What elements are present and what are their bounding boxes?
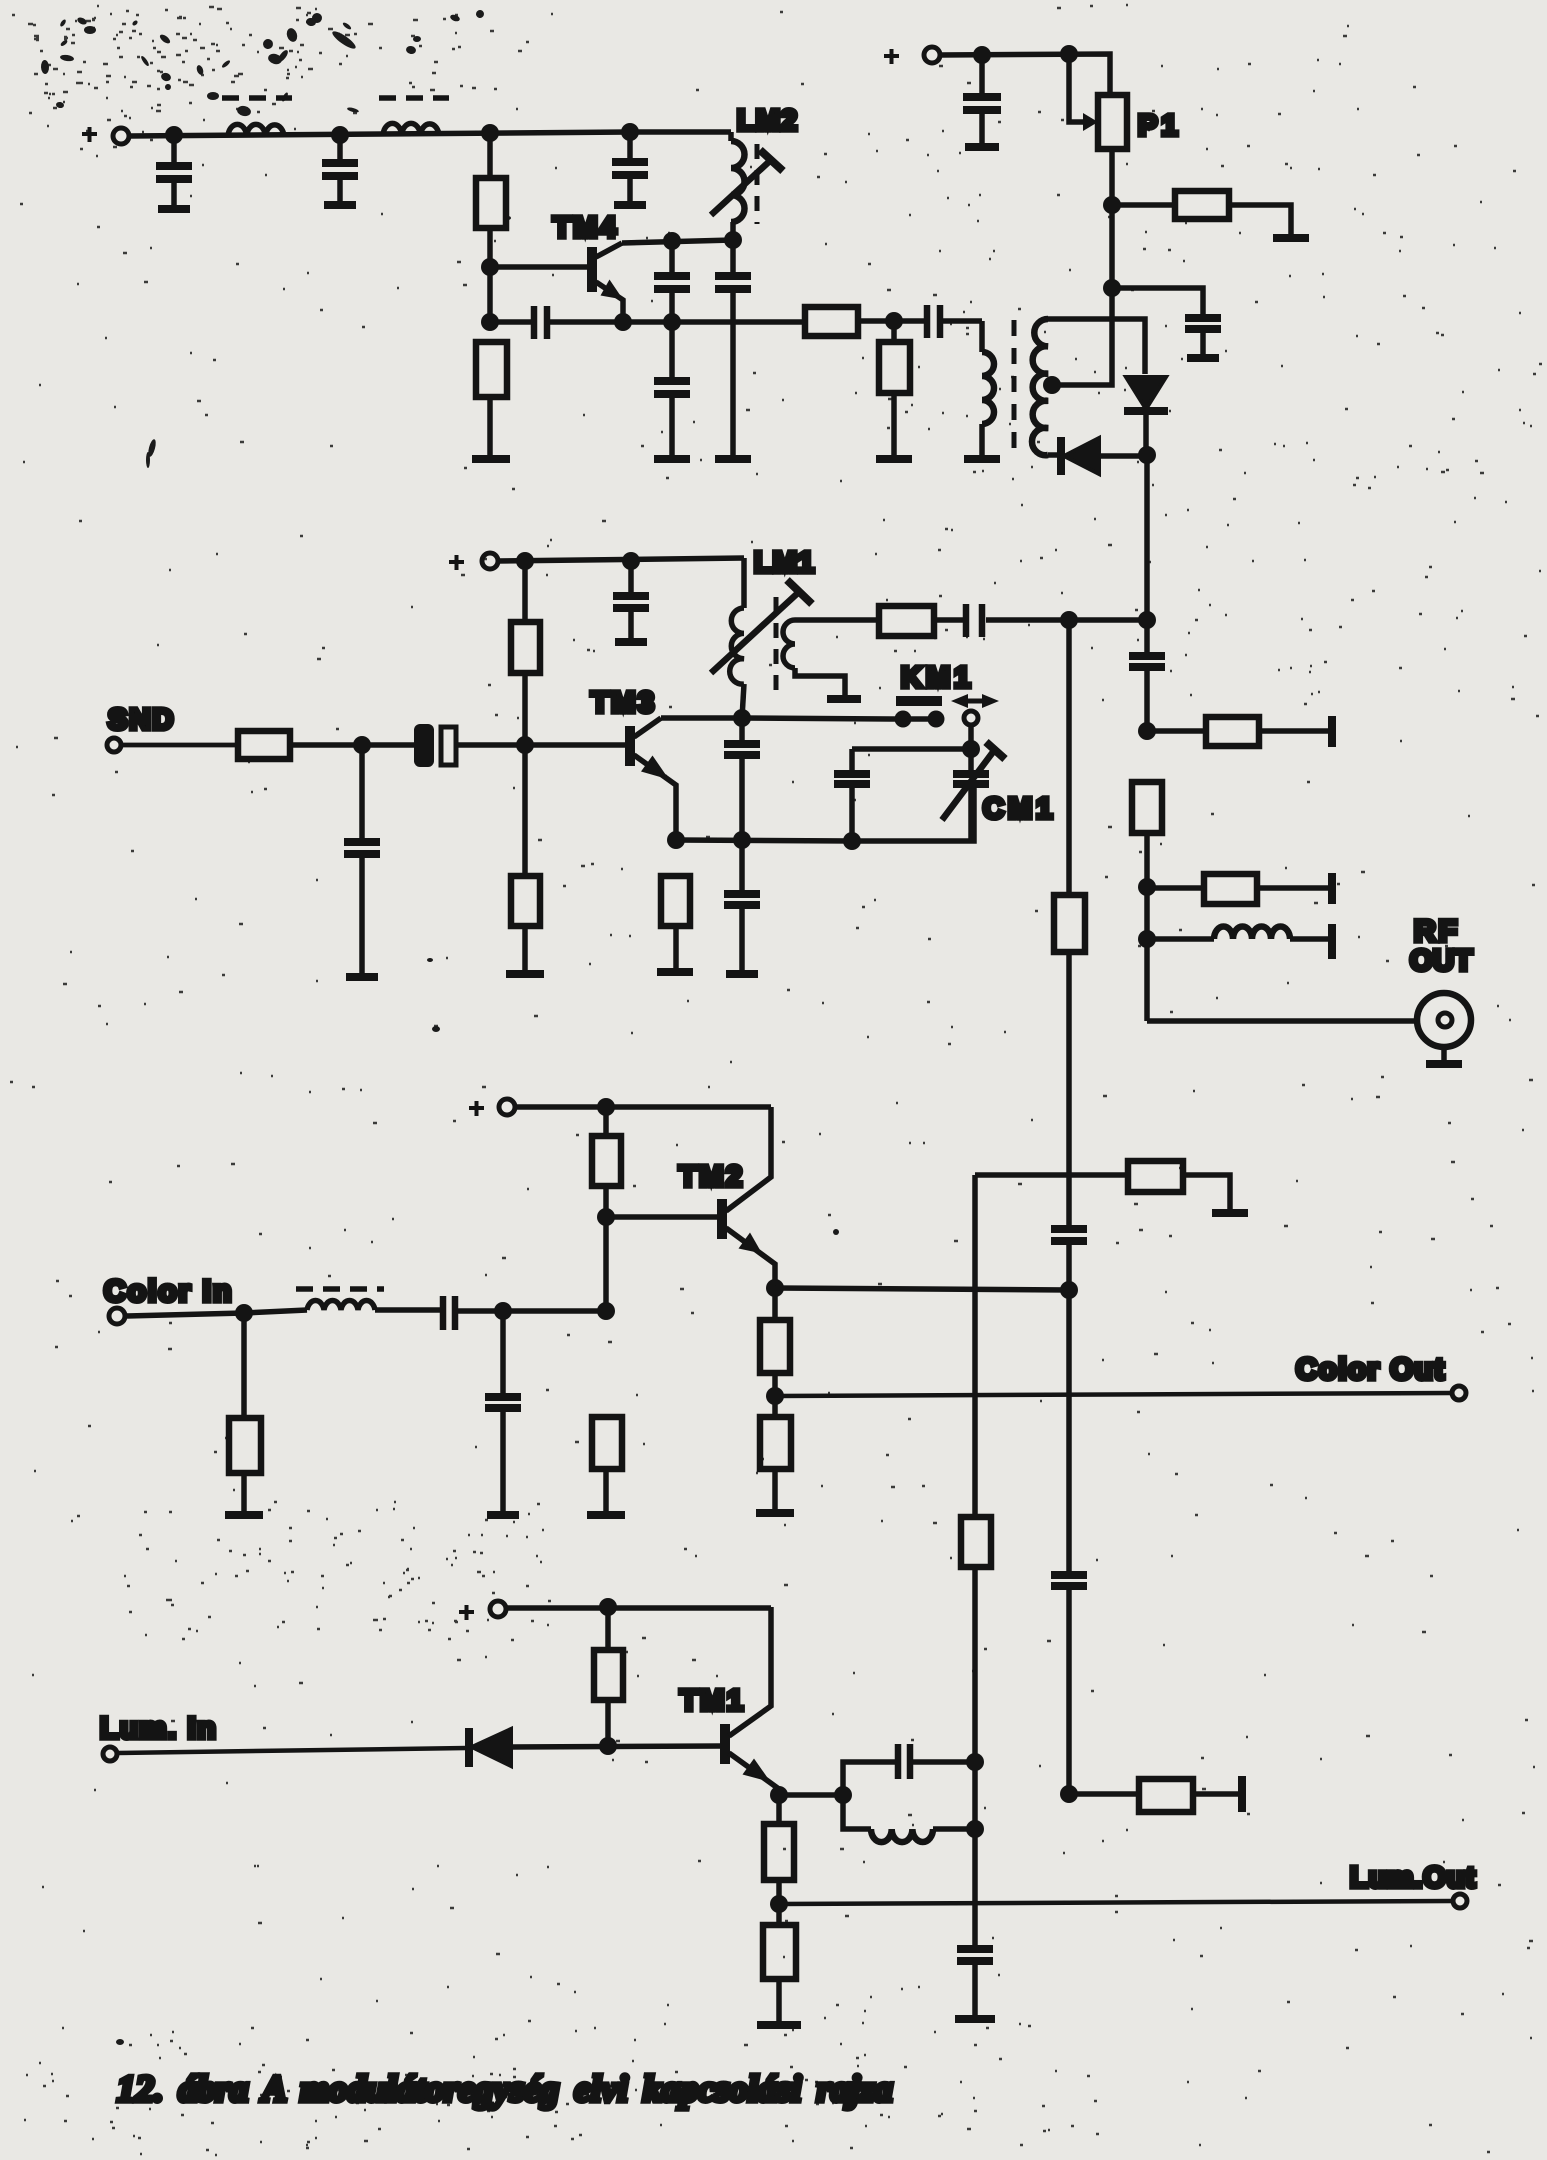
input terminal SND (107, 738, 121, 752)
svg-text:CM1: CM1 (983, 793, 1056, 825)
svg-text:TM4: TM4 (553, 212, 619, 244)
svg-text:TM2: TM2 (679, 1161, 745, 1193)
svg-text:12. ábra A modulátoregység elv: 12. ábra A modulátoregység elvi kapcsolá… (117, 2069, 893, 2110)
resistor R (TM2 emitter upper) (760, 1288, 790, 1417)
terminal bar (choke end) (1328, 924, 1336, 959)
capacitor C (rail1 bypass b) (322, 135, 358, 205)
wire emitter line y322 mid (550, 319, 805, 325)
inductor LM1 (variable, sound carrier coil) (730, 558, 744, 718)
svg-text:KM1: KM1 (901, 662, 974, 694)
ground (P1 load) (1273, 234, 1309, 242)
node junction AO (LC bottom) (966, 1820, 984, 1838)
supply terminal + (TM1 rail) (459, 1605, 474, 1620)
wire secondary top to diode column (1048, 319, 1145, 374)
ground (TM1 emitter) (757, 2021, 801, 2029)
dashed core line above choke b (379, 95, 449, 101)
capacitor C (sound mixer series) (966, 604, 982, 637)
resistor R (buffer drive series) (805, 307, 858, 336)
svg-text:SND: SND (108, 704, 175, 736)
resistor R (TM3 base lower) (511, 745, 540, 972)
supply terminal post (TM1 rail) (490, 1601, 506, 1617)
capacitor C (series, TM4 emitter left) (534, 306, 547, 339)
capacitor C (rail1 bypass d) (612, 132, 648, 205)
wire TM4 base (490, 264, 588, 270)
wire tap to P1 column (1052, 288, 1112, 385)
wire Lum In (117, 1748, 467, 1753)
input terminal Color In (109, 1308, 125, 1324)
transistor TM3 (630, 718, 742, 840)
input terminal Lum In (103, 1747, 117, 1761)
node junction O (1103, 279, 1121, 297)
svg-text:LM1: LM1 (754, 547, 815, 579)
potentiometer P1 (1069, 54, 1127, 149)
diode D (Lum In clamp, pointing left) (469, 1728, 723, 1767)
switch KM1 bar (896, 696, 942, 706)
node junction U (top of video rail) (1060, 611, 1078, 629)
ground (x733) (715, 455, 751, 463)
wire video rail mid (1066, 1290, 1072, 1573)
inductor L (rail1 choke b) (383, 123, 439, 135)
capacitor C (x672 upper feedback) (654, 241, 690, 322)
svg-text:Color In: Color In (104, 1275, 233, 1308)
resistor R (TM3 emitter) (661, 876, 690, 970)
capacitor C (TM3 rail bypass) (613, 561, 649, 642)
resistor R (TM4 base upper) (476, 178, 506, 228)
capacitor C (Color In series) (375, 1296, 606, 1330)
node junction E (TM4 base) (481, 258, 499, 276)
wire RF rail upper (1144, 455, 1150, 654)
transistor TM4 (592, 240, 733, 322)
wire TM2 base (606, 1214, 718, 1220)
wire TM1 supply rail (506, 1605, 771, 1611)
inductor L (output choke) (1147, 926, 1329, 939)
svg-text:RF: RF (1414, 915, 1460, 948)
wire rail1-c down (487, 133, 493, 178)
wire TM3 base (525, 742, 626, 748)
ground (below I) (472, 455, 510, 463)
capacitor C (LM1 tank lower, to ground) (724, 840, 760, 974)
node junction rail1-c (481, 124, 499, 142)
wire to RF connector (1147, 1018, 1416, 1024)
wire TM3 supply rail (498, 558, 744, 561)
node junction rail1-a (165, 126, 183, 144)
wire to node AD (290, 742, 415, 748)
wire KM1 to CM1 (968, 725, 974, 749)
resistor R (RF rail series) (1132, 782, 1162, 1021)
capacitor C (video rail series 1) (1051, 1229, 1087, 1290)
capacitor C (below AD, to ground) (344, 745, 380, 977)
inductor L (LM1 coupling coil) (783, 620, 845, 697)
resistor R (TM4 base lower) (476, 342, 507, 457)
ground (below L) (876, 455, 912, 463)
svg-text:LM2: LM2 (737, 105, 798, 137)
capacitor C (x733 feedback) (715, 240, 751, 457)
dashed core line LM2 (755, 144, 760, 224)
wire KM1 feed (742, 718, 936, 719)
node junction AS (TM1 emitter) (770, 1786, 788, 1804)
node junction H (TM4 emitter) (614, 313, 632, 331)
capacitor C (below AL, to ground) (485, 1311, 521, 1515)
node junction AI (TM2 emitter) (766, 1279, 784, 1297)
inductor L (peaking LC bottom) (843, 1795, 975, 1842)
inductor L (Color In peaking) (307, 1301, 375, 1310)
capacitor C (P1 rail bypass) (963, 55, 1001, 147)
ground (TM2 base lower) (587, 1511, 625, 1519)
node junction AL (494, 1302, 512, 1320)
dashed core line LM1 (774, 597, 779, 690)
transistor TM1 (725, 1607, 779, 1795)
svg-text:P1: P1 (1138, 110, 1181, 142)
supply terminal post (TM3 rail) (482, 553, 498, 569)
node junction P (1103, 196, 1121, 214)
wire secondary bottom to diode 2 (1048, 452, 1058, 458)
supply terminal + (P1 rail) (884, 49, 899, 64)
node junction AU (lum out tap) (770, 1895, 788, 1913)
node junction G (collector line / x672) (663, 232, 681, 250)
resistor R (TM1 emitter lower) (763, 1925, 796, 2023)
transformer primary coil (982, 321, 994, 457)
node junction AQ (599, 1598, 617, 1616)
svg-text:Lum. In: Lum. In (100, 1712, 217, 1745)
wire bias rail top corner (975, 1172, 1128, 1178)
wire y322 after resistor (858, 318, 894, 324)
svg-text:TM3: TM3 (591, 687, 657, 719)
node junction Q (RF rail / mixer feed) (1138, 611, 1156, 629)
resistor R (attenuator mid) (1147, 874, 1329, 904)
wire bias rail x975 (972, 1175, 978, 1517)
ground (TM3 base lower) (506, 970, 544, 978)
ground (TM2 emitter) (756, 1509, 794, 1517)
resistor R (TM2 base lower) (592, 1417, 622, 1513)
wire Color In (125, 1310, 307, 1316)
dashed core line (transformer) (1012, 320, 1017, 450)
resistor R (TM2 base upper) (592, 1107, 621, 1312)
capacitor C (LM1 tank upper) (724, 718, 760, 840)
node junction AB (LM1 bottom) (733, 709, 751, 727)
node junction rail1-b (331, 126, 349, 144)
capacitor C (electrolytic, SND coupling) (414, 724, 525, 767)
node junction AE (emitter bus / padder) (843, 832, 861, 850)
ground (TM3 emitter) (657, 968, 693, 976)
node junction rail1-d (621, 123, 639, 141)
node junction X (1138, 930, 1156, 948)
arrow through LM2 (711, 150, 783, 215)
node junction S (arrow tap) (1060, 45, 1078, 63)
capacitor CM1 (trimmer) (953, 749, 989, 841)
svg-text:TM1: TM1 (680, 1685, 746, 1717)
wire resistor to node E (487, 228, 493, 322)
inductor LM2 (variable, oscillator coil) (731, 132, 745, 240)
resistor R (video rail terminator) (1069, 1779, 1240, 1812)
node junction M (diode output) (1138, 446, 1156, 464)
svg-text:OUT: OUT (1410, 945, 1473, 977)
node junction Y (516, 552, 534, 570)
node junction AH (TM2 base) (597, 1208, 615, 1226)
wire video rail x1069 upper (1066, 620, 1072, 895)
wire TM2 supply rail (515, 1104, 771, 1110)
capacitor C (series in RF rail) (1129, 656, 1165, 731)
node junction AC (TM3 emitter) (667, 831, 685, 849)
resistor R (bias bleed) (1128, 1161, 1230, 1211)
wire supply rail 1 (129, 132, 731, 136)
node junction L (885, 312, 903, 330)
node junction AM (597, 1302, 615, 1320)
resistor R (TM2 emitter lower) (760, 1417, 791, 1511)
resistor R (below L) (879, 321, 910, 457)
wire mixer line y620 (795, 617, 1147, 623)
resistor R (RF attenuator top) (1147, 717, 1329, 746)
resistor R (TM1 emitter upper) (764, 1795, 794, 1925)
capacitor C (bias rail bypass) (957, 1949, 993, 2017)
node junction R (cap tap) (973, 46, 991, 64)
resistor R (video rail series) (1054, 895, 1085, 1227)
diode D (from secondary bottom, pointing left) (1061, 437, 1147, 475)
supply terminal post (top-left) (113, 128, 129, 144)
node junction AC2 (733, 831, 751, 849)
node junction J (x672 on emitter line) (663, 313, 681, 331)
wire P1 bottom (1109, 149, 1115, 288)
transistor TM2 (722, 1107, 775, 1288)
node junction Z (622, 552, 640, 570)
svg-text:Lum.Out: Lum.Out (1350, 1862, 1476, 1894)
wire SND input (121, 743, 238, 748)
supply terminal post (TM2 rail) (499, 1099, 515, 1115)
resistor R (P1 wiper load) (1112, 191, 1291, 236)
dashed core line above choke a (222, 95, 292, 101)
ground (transformer primary) (964, 455, 1000, 463)
capacitor C (video rail series 2) (1051, 1575, 1087, 1794)
supply terminal + (top-left) (82, 127, 97, 142)
ground (bias rail) (955, 2015, 995, 2023)
wire TM2 emitter to video rail (775, 1288, 1069, 1290)
resistor R (bias rail series) (961, 1517, 991, 1947)
switch KM1 contacts (895, 711, 979, 728)
node junction AR (TM1 base) (599, 1737, 617, 1755)
node junction V (1138, 722, 1156, 740)
terminal bar (video rail) (1238, 1776, 1246, 1812)
terminal bar (attenuator top) (1328, 716, 1336, 747)
RF OUT coaxial connector (1417, 993, 1471, 1062)
resistor R (Color In shunt) (229, 1313, 261, 1513)
wire Lum Out (779, 1901, 1453, 1904)
node junction AA (TM3 base) (516, 736, 534, 754)
node junction AP (1060, 1785, 1078, 1803)
node junction F (LM2 bottom) (724, 231, 742, 249)
switch KM1 arrow (951, 694, 999, 708)
resistor R (TM1 base pullup) (594, 1607, 623, 1746)
supply terminal post (P1 rail) (924, 47, 940, 63)
node junction AK (235, 1304, 253, 1322)
arrow through CM1 (942, 742, 1005, 820)
node junction AT (834, 1786, 852, 1804)
terminal bar (attenuator mid) (1328, 873, 1336, 904)
supply terminal + (TM3 rail) (449, 555, 464, 570)
ground (x672) (654, 455, 690, 463)
capacitor C (x672 lower, to ground) (654, 322, 690, 457)
capacitor C (series to transformer) (894, 305, 982, 338)
capacitor C (tap bypass) (1112, 288, 1221, 358)
inductor L (rail1 choke a) (228, 124, 284, 136)
node junction (video rail / TM2 emitter) (1060, 1281, 1078, 1299)
wire emitter bus y840 (676, 787, 974, 841)
resistor R (TM3 base upper) (511, 561, 540, 745)
wire AF left (852, 746, 971, 752)
arrow through LM1 (711, 580, 812, 673)
dashed core line (peaking coil) (296, 1286, 384, 1292)
diode D (to RF rail, pointing down) (1124, 377, 1168, 455)
node junction N (secondary tap) (1043, 376, 1061, 394)
output terminal Lum Out (1453, 1894, 1467, 1908)
wire emitter to LC (779, 1792, 843, 1798)
capacitor C (peaking LC top) (843, 1744, 975, 1795)
node junction I (below E) (481, 313, 499, 331)
node junction AD (353, 736, 371, 754)
ground (RF connector) (1426, 1060, 1462, 1068)
wire Color Out (775, 1393, 1452, 1396)
supply terminal + (TM2 rail) (469, 1101, 484, 1116)
resistor R (sound mixer series) (879, 606, 934, 636)
resistor R (SND series) (238, 731, 290, 759)
svg-text:Color Out: Color Out (1296, 1353, 1446, 1386)
node junction AG (597, 1098, 615, 1116)
node junction AN (LC top) (966, 1753, 984, 1771)
capacitor C (rail1 bypass a) (156, 135, 192, 209)
transformer secondary coil (1032, 319, 1048, 455)
node junction W (1138, 878, 1156, 896)
ground (coupling coil) (827, 695, 861, 703)
wire P1 supply rail (940, 54, 1110, 95)
ground (bias bleed) (1212, 1209, 1248, 1217)
capacitor C (fixed padder) (834, 749, 870, 841)
output terminal Color Out (1452, 1386, 1466, 1400)
ground (Color In shunt) (225, 1511, 263, 1519)
node junction AF (962, 740, 980, 758)
node junction AJ (color out tap) (766, 1387, 784, 1405)
wire emitter line y322 left part (490, 319, 531, 325)
